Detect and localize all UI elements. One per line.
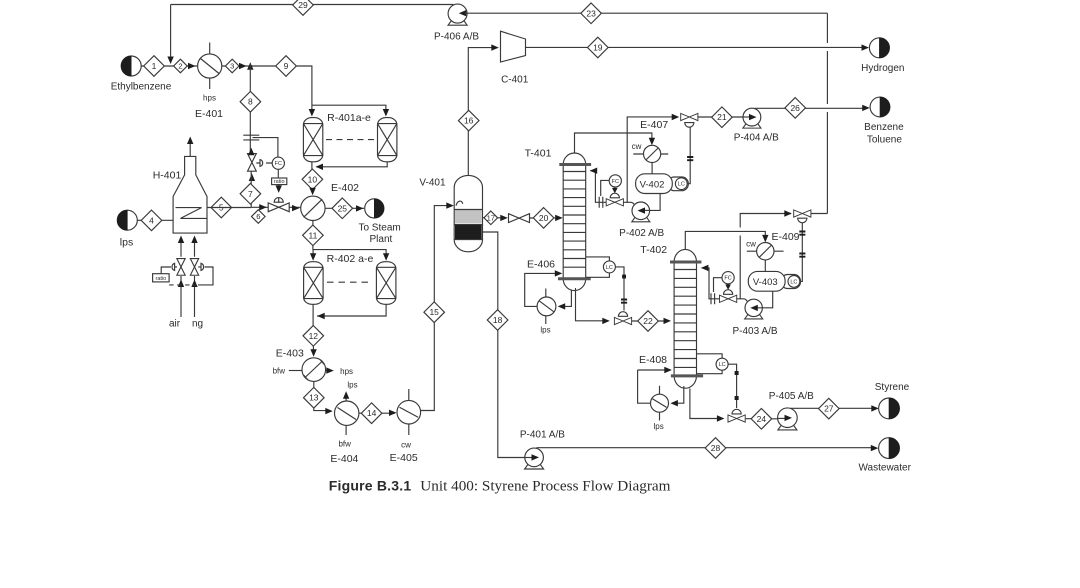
wire lps to furnace bbox=[137, 219, 173, 221]
svg-text:25: 25 bbox=[338, 203, 348, 213]
cw ticks E-409 bbox=[746, 239, 783, 251]
svg-text:7: 7 bbox=[248, 189, 253, 199]
svg-text:bfw: bfw bbox=[338, 440, 351, 449]
stream diamond 9 bbox=[276, 56, 297, 77]
wire air inlet bbox=[169, 236, 184, 330]
wire C-401 to Hydrogen (stream 19) bbox=[526, 46, 866, 48]
wire E-402 to steam plant bbox=[325, 207, 364, 209]
pump P-401 A/B bbox=[520, 430, 565, 470]
controller ratio box (steam) bbox=[272, 169, 287, 193]
controller LC T-402 bbox=[697, 354, 729, 374]
svg-text:cw: cw bbox=[746, 239, 756, 248]
stream diamond 25 bbox=[332, 198, 353, 219]
svg-text:lps: lps bbox=[120, 237, 133, 249]
wire distillate branch to valve 21 bbox=[627, 114, 679, 203]
svg-text:LC: LC bbox=[790, 279, 797, 285]
controller FC (steam ratio) bbox=[256, 157, 284, 169]
wire recycle valve to riser bbox=[811, 213, 828, 215]
orifice plates on steam riser bbox=[243, 135, 259, 140]
wire recycle line 29 (top) bbox=[171, 5, 454, 58]
wire recycle riser (down to valve near E-409) bbox=[826, 13, 828, 213]
wire P-403 reflux to T-402 bbox=[701, 265, 747, 302]
svg-text:lps: lps bbox=[653, 422, 663, 431]
control valve 22 (T-401 bottoms) bbox=[614, 312, 631, 325]
lps ticks E-406 bbox=[540, 289, 550, 335]
arrow into valve 17 bbox=[500, 215, 508, 221]
reactor R-402a bbox=[304, 262, 324, 305]
stream input Ethylbenzene bbox=[111, 56, 172, 93]
stream diamond 4 bbox=[141, 210, 162, 231]
dashed link R-401 bbox=[326, 139, 374, 141]
pump P-406 A/B bbox=[434, 4, 479, 42]
wire valve 21 to P-404 bbox=[697, 116, 749, 118]
control valve reflux T-402 bbox=[719, 290, 736, 303]
heat exchanger E-405 bbox=[390, 400, 421, 464]
stream diamond 17 bbox=[484, 211, 498, 225]
valve on stream 17 bbox=[509, 214, 530, 223]
caption Figure B.3.1 bbox=[329, 478, 671, 495]
stream diamond 7 bbox=[240, 184, 261, 205]
reboiler loop E-406 bbox=[525, 270, 572, 309]
reboiler E-408 bbox=[639, 354, 669, 412]
heat exchanger E-401 bbox=[195, 43, 223, 121]
wire steam riser 8-7 bbox=[249, 64, 251, 154]
svg-text:E-409: E-409 bbox=[771, 231, 799, 243]
svg-text:19: 19 bbox=[593, 43, 603, 53]
svg-text:FC: FC bbox=[724, 276, 731, 282]
wire T-402 overhead to E-409 bbox=[685, 231, 768, 249]
cw ticks E-407 bbox=[632, 142, 669, 154]
stream diamond 5 bbox=[211, 197, 232, 218]
inlet distributor curl V-401 bbox=[456, 201, 463, 206]
stream diamond 29 bbox=[293, 0, 314, 15]
wire E-401 to reactor header bbox=[222, 66, 312, 105]
wire V-403 to P-403 bbox=[757, 291, 773, 308]
stream diamond 13 bbox=[304, 387, 325, 408]
svg-text:ratio: ratio bbox=[156, 276, 167, 282]
control valve 24 bbox=[728, 409, 745, 422]
signal ng valve loop bbox=[198, 267, 213, 285]
stream diamond 24 bbox=[751, 409, 772, 430]
control valve recycle bbox=[794, 210, 811, 223]
svg-text:E-401: E-401 bbox=[195, 108, 223, 120]
svg-text:P-404 A/B: P-404 A/B bbox=[734, 132, 779, 143]
reactor R-401a bbox=[303, 118, 322, 162]
arrow into hydrogen bbox=[862, 44, 870, 50]
stream diamond 2 bbox=[174, 59, 188, 73]
svg-text:P-405 A/B: P-405 A/B bbox=[769, 391, 814, 402]
svg-text:27: 27 bbox=[824, 404, 834, 414]
wire ethylbenzene feed line bbox=[141, 65, 198, 67]
stream diamond 6 bbox=[251, 210, 265, 224]
svg-text:LC: LC bbox=[719, 362, 726, 368]
control valve reflux T-401 bbox=[606, 193, 623, 206]
flange ticks reflux T-402 bbox=[711, 293, 715, 304]
svg-text:Wastewater: Wastewater bbox=[858, 463, 911, 474]
stream diamond 1 bbox=[144, 56, 165, 77]
signal LC T-402 to valve 24 bbox=[728, 364, 739, 408]
stream input lps bbox=[117, 210, 137, 248]
wire furnace outlet 5 bbox=[207, 207, 251, 209]
arrow up into steam valve bbox=[248, 148, 255, 181]
heat exchanger E-402 bbox=[301, 182, 359, 221]
dashed link R-402 bbox=[327, 281, 373, 283]
cw ticks E-405 bbox=[401, 389, 411, 450]
stream diamond 15 bbox=[424, 302, 445, 323]
svg-text:lps: lps bbox=[540, 326, 550, 335]
stream diamond 26 bbox=[785, 98, 806, 119]
svg-text:bfw: bfw bbox=[273, 367, 286, 376]
reactor R-402e bbox=[327, 253, 396, 304]
stream output Hydrogen bbox=[861, 38, 904, 74]
svg-text:R-402 a-e: R-402 a-e bbox=[327, 253, 374, 265]
stream diamond 20 bbox=[533, 208, 554, 229]
svg-text:E-408: E-408 bbox=[639, 354, 667, 366]
stream diamond 22 bbox=[638, 311, 659, 332]
condenser E-407 bbox=[640, 119, 668, 162]
wire E-403 to E-404 bbox=[314, 381, 333, 414]
furnace H-401 bbox=[153, 156, 207, 233]
controller LC V-403 bbox=[788, 276, 800, 288]
svg-text:E-406: E-406 bbox=[527, 259, 555, 271]
svg-text:12: 12 bbox=[309, 331, 319, 341]
pump P-404 A/B bbox=[734, 108, 779, 143]
stream diamond 27 bbox=[819, 398, 840, 419]
svg-text:T-401: T-401 bbox=[525, 148, 552, 160]
wire V-401 water to P-401 (stream 18) bbox=[483, 232, 532, 458]
svg-text:C-401: C-401 bbox=[501, 75, 529, 86]
svg-text:13: 13 bbox=[309, 393, 319, 403]
reboiler E-406 bbox=[527, 259, 556, 316]
svg-text:8: 8 bbox=[248, 97, 253, 107]
flange ticks reflux T-401 bbox=[599, 197, 603, 208]
svg-text:V-401: V-401 bbox=[419, 178, 446, 189]
svg-text:Figure B.3.1: Figure B.3.1 bbox=[329, 478, 412, 494]
valve (vertical) on steam riser bbox=[248, 154, 257, 172]
stream diamond 3 bbox=[225, 59, 239, 73]
stream diamond 21 bbox=[712, 107, 733, 128]
vessel V-403 bbox=[748, 271, 800, 291]
stream output To Steam Plant bbox=[358, 199, 400, 245]
svg-text:Unit 400: Styrene Process Flow: Unit 400: Styrene Process Flow Diagram bbox=[420, 478, 670, 495]
stream diamond 28 bbox=[705, 438, 726, 459]
wire recycle line 23 from riser to pump bbox=[465, 12, 828, 14]
svg-text:V-403: V-403 bbox=[753, 277, 778, 288]
arrow into E-402 bbox=[309, 188, 315, 196]
svg-text:P-401 A/B: P-401 A/B bbox=[520, 430, 565, 441]
hps arrow E-403 bbox=[326, 367, 353, 376]
control valve (steam to E-402) bbox=[268, 198, 289, 212]
stream output Benzene Toluene bbox=[864, 97, 904, 145]
reboiler loop E-408 bbox=[638, 367, 684, 407]
wire R-401 inlet header bbox=[309, 105, 389, 116]
svg-text:11: 11 bbox=[308, 230, 317, 240]
control valve air bbox=[172, 259, 185, 276]
vessel V-401 bbox=[419, 175, 482, 251]
stream diamond 23 bbox=[581, 3, 602, 24]
wire T-401 overhead to E-407 bbox=[575, 133, 656, 153]
stream diamond 11 bbox=[303, 225, 324, 246]
controller LC V-402 bbox=[675, 178, 687, 190]
arrow into benzene toluene bbox=[862, 105, 870, 111]
wire E-405 to V-401 (stream 15) bbox=[421, 202, 454, 410]
svg-text:E-402: E-402 bbox=[331, 182, 359, 194]
wire V-402 to P-402 bbox=[644, 194, 660, 211]
controller FC T-402 reflux bbox=[714, 272, 735, 292]
stream diamond 18 bbox=[487, 310, 508, 331]
arrow into E-403 bbox=[310, 346, 316, 357]
svg-text:28: 28 bbox=[711, 443, 721, 453]
stream output Wastewater bbox=[858, 438, 911, 474]
wire junction to E-402 bbox=[251, 206, 301, 208]
control valve 21 bbox=[681, 113, 698, 127]
svg-text:ng: ng bbox=[192, 319, 203, 330]
svg-text:P-406 A/B: P-406 A/B bbox=[434, 32, 479, 43]
stream diamond 14 bbox=[361, 403, 382, 424]
heat exchanger E-403 bbox=[276, 348, 326, 382]
svg-text:Ethylbenzene: Ethylbenzene bbox=[111, 82, 172, 93]
controller LC T-401 bbox=[586, 257, 616, 277]
svg-text:LC: LC bbox=[606, 265, 613, 271]
svg-text:3: 3 bbox=[230, 62, 234, 71]
svg-text:E-407: E-407 bbox=[640, 119, 668, 131]
wire R-401 outlet bbox=[312, 162, 387, 170]
svg-text:P-402 A/B: P-402 A/B bbox=[619, 228, 664, 239]
arrow steam up into feed line bbox=[247, 62, 253, 69]
svg-text:ratio: ratio bbox=[274, 179, 285, 185]
svg-text:26: 26 bbox=[790, 103, 800, 113]
node mix tee arrow (recycle into feed) bbox=[167, 57, 173, 65]
heat exchanger E-404 bbox=[330, 401, 359, 465]
svg-text:cw: cw bbox=[401, 441, 411, 450]
svg-text:22: 22 bbox=[643, 316, 653, 326]
control valve ng bbox=[190, 259, 203, 276]
svg-text:hps: hps bbox=[203, 94, 216, 103]
wire E-409 to V-403 bbox=[764, 260, 766, 272]
bfw tick E-404 bbox=[338, 425, 351, 448]
svg-text:E-403: E-403 bbox=[276, 348, 304, 360]
svg-text:15: 15 bbox=[429, 307, 439, 317]
svg-text:E-404: E-404 bbox=[330, 453, 358, 465]
wire E-402 to R-402 header bbox=[310, 221, 389, 261]
orifice tap to FC bbox=[253, 138, 278, 158]
svg-text:LC: LC bbox=[678, 182, 685, 188]
signal LC V-403 to recycle valve bbox=[799, 223, 805, 282]
svg-text:To Steam: To Steam bbox=[358, 223, 400, 234]
bfw tick E-403 bbox=[273, 367, 302, 376]
arrow into E-401 bbox=[188, 63, 196, 69]
vessel V-402 bbox=[636, 174, 689, 194]
svg-text:23: 23 bbox=[586, 8, 596, 18]
svg-text:lps: lps bbox=[347, 381, 357, 390]
stack arrow H-401 bbox=[187, 137, 193, 157]
svg-text:E-405: E-405 bbox=[390, 452, 418, 464]
svg-text:Hydrogen: Hydrogen bbox=[861, 63, 904, 74]
wire recycle branch to valve (toluene recycle) bbox=[740, 210, 792, 298]
svg-text:9: 9 bbox=[284, 61, 289, 71]
svg-text:Benzene: Benzene bbox=[864, 122, 904, 133]
reactor R-401e bbox=[327, 112, 397, 162]
signal LC T-401 to bottoms valve bbox=[615, 267, 627, 311]
stream diamond 10 bbox=[302, 169, 323, 190]
column T-402 bbox=[640, 244, 703, 388]
svg-text:H-401: H-401 bbox=[153, 170, 182, 182]
controller ratio box (air/ng) bbox=[153, 274, 170, 282]
arrow into steam valve bbox=[259, 204, 267, 210]
arrow to steam plant bbox=[356, 205, 364, 211]
signal LC V-402 to valve bbox=[687, 127, 693, 183]
wire V-401 vapor to C-401 (stream 16) bbox=[468, 44, 499, 175]
svg-text:FC: FC bbox=[612, 179, 619, 185]
wire P-402 reflux to T-401 bbox=[590, 168, 635, 205]
controller FC T-401 reflux bbox=[601, 175, 622, 196]
pump P-402 A/B bbox=[619, 202, 664, 239]
svg-text:20: 20 bbox=[539, 213, 549, 223]
svg-text:P-403 A/B: P-403 A/B bbox=[732, 326, 777, 337]
svg-text:R-401a-e: R-401a-e bbox=[327, 112, 371, 124]
svg-text:2: 2 bbox=[178, 62, 182, 71]
wire R-402 outlet bbox=[313, 304, 386, 327]
wire E-404 to E-405 bbox=[359, 410, 397, 416]
svg-text:16: 16 bbox=[464, 116, 474, 126]
svg-text:Styrene: Styrene bbox=[875, 382, 910, 393]
svg-text:1: 1 bbox=[152, 61, 157, 71]
wire V-401 organic to T-401 (stream 17/20) bbox=[483, 217, 561, 219]
wire P-404 to Benzene Toluene (stream 26) bbox=[755, 107, 867, 109]
svg-text:29: 29 bbox=[298, 0, 308, 10]
stream diamond 16 bbox=[458, 110, 479, 131]
svg-text:14: 14 bbox=[367, 408, 377, 418]
arrow steam mix junction bbox=[239, 63, 247, 69]
wire steam valve to junction bbox=[250, 171, 252, 207]
svg-text:air: air bbox=[169, 319, 181, 330]
lps arrow E-404 bbox=[343, 381, 358, 401]
svg-text:21: 21 bbox=[717, 112, 727, 122]
wire E-407 to V-402 bbox=[651, 163, 653, 174]
svg-text:Plant: Plant bbox=[370, 234, 393, 245]
arrow into E-402 bbox=[292, 205, 300, 211]
svg-text:17: 17 bbox=[487, 213, 495, 222]
svg-text:18: 18 bbox=[493, 315, 503, 325]
svg-text:FC: FC bbox=[275, 161, 282, 167]
stream diamond 19 bbox=[588, 37, 609, 58]
signal air valve to ratio bbox=[161, 267, 171, 274]
wire T-402 bottoms to P-405 bbox=[690, 389, 784, 422]
condenser E-409 bbox=[757, 231, 800, 260]
stream diamond 8 bbox=[240, 91, 261, 112]
svg-text:cw: cw bbox=[632, 142, 642, 151]
column T-401 bbox=[525, 148, 592, 291]
wire T-401 bottoms to T-402 (stream 22) bbox=[576, 288, 672, 324]
svg-text:Toluene: Toluene bbox=[867, 134, 902, 145]
svg-text:hps: hps bbox=[340, 367, 353, 376]
svg-text:24: 24 bbox=[757, 414, 767, 424]
svg-text:6: 6 bbox=[256, 212, 260, 221]
svg-text:10: 10 bbox=[308, 174, 318, 184]
stream diamond 12 bbox=[303, 326, 324, 347]
wire ng inlet bbox=[191, 236, 203, 330]
arrow into wastewater bbox=[871, 445, 879, 451]
stream output Styrene bbox=[875, 382, 910, 419]
arrow into styrene bbox=[871, 405, 879, 411]
pump P-405 A/B bbox=[769, 391, 814, 430]
compressor C-401 bbox=[501, 31, 529, 85]
wire P-405 to Styrene (stream 27) bbox=[790, 407, 877, 409]
signal dashed measurement line bbox=[169, 284, 196, 286]
svg-text:4: 4 bbox=[149, 215, 154, 225]
pump P-403 A/B bbox=[732, 299, 777, 337]
arrow feed into T-401 bbox=[555, 215, 563, 221]
wire P-401 to wastewater (stream 28) bbox=[537, 447, 877, 449]
lps ticks E-408 bbox=[653, 386, 663, 431]
svg-text:V-402: V-402 bbox=[640, 179, 665, 190]
svg-text:T-402: T-402 bbox=[640, 244, 667, 256]
